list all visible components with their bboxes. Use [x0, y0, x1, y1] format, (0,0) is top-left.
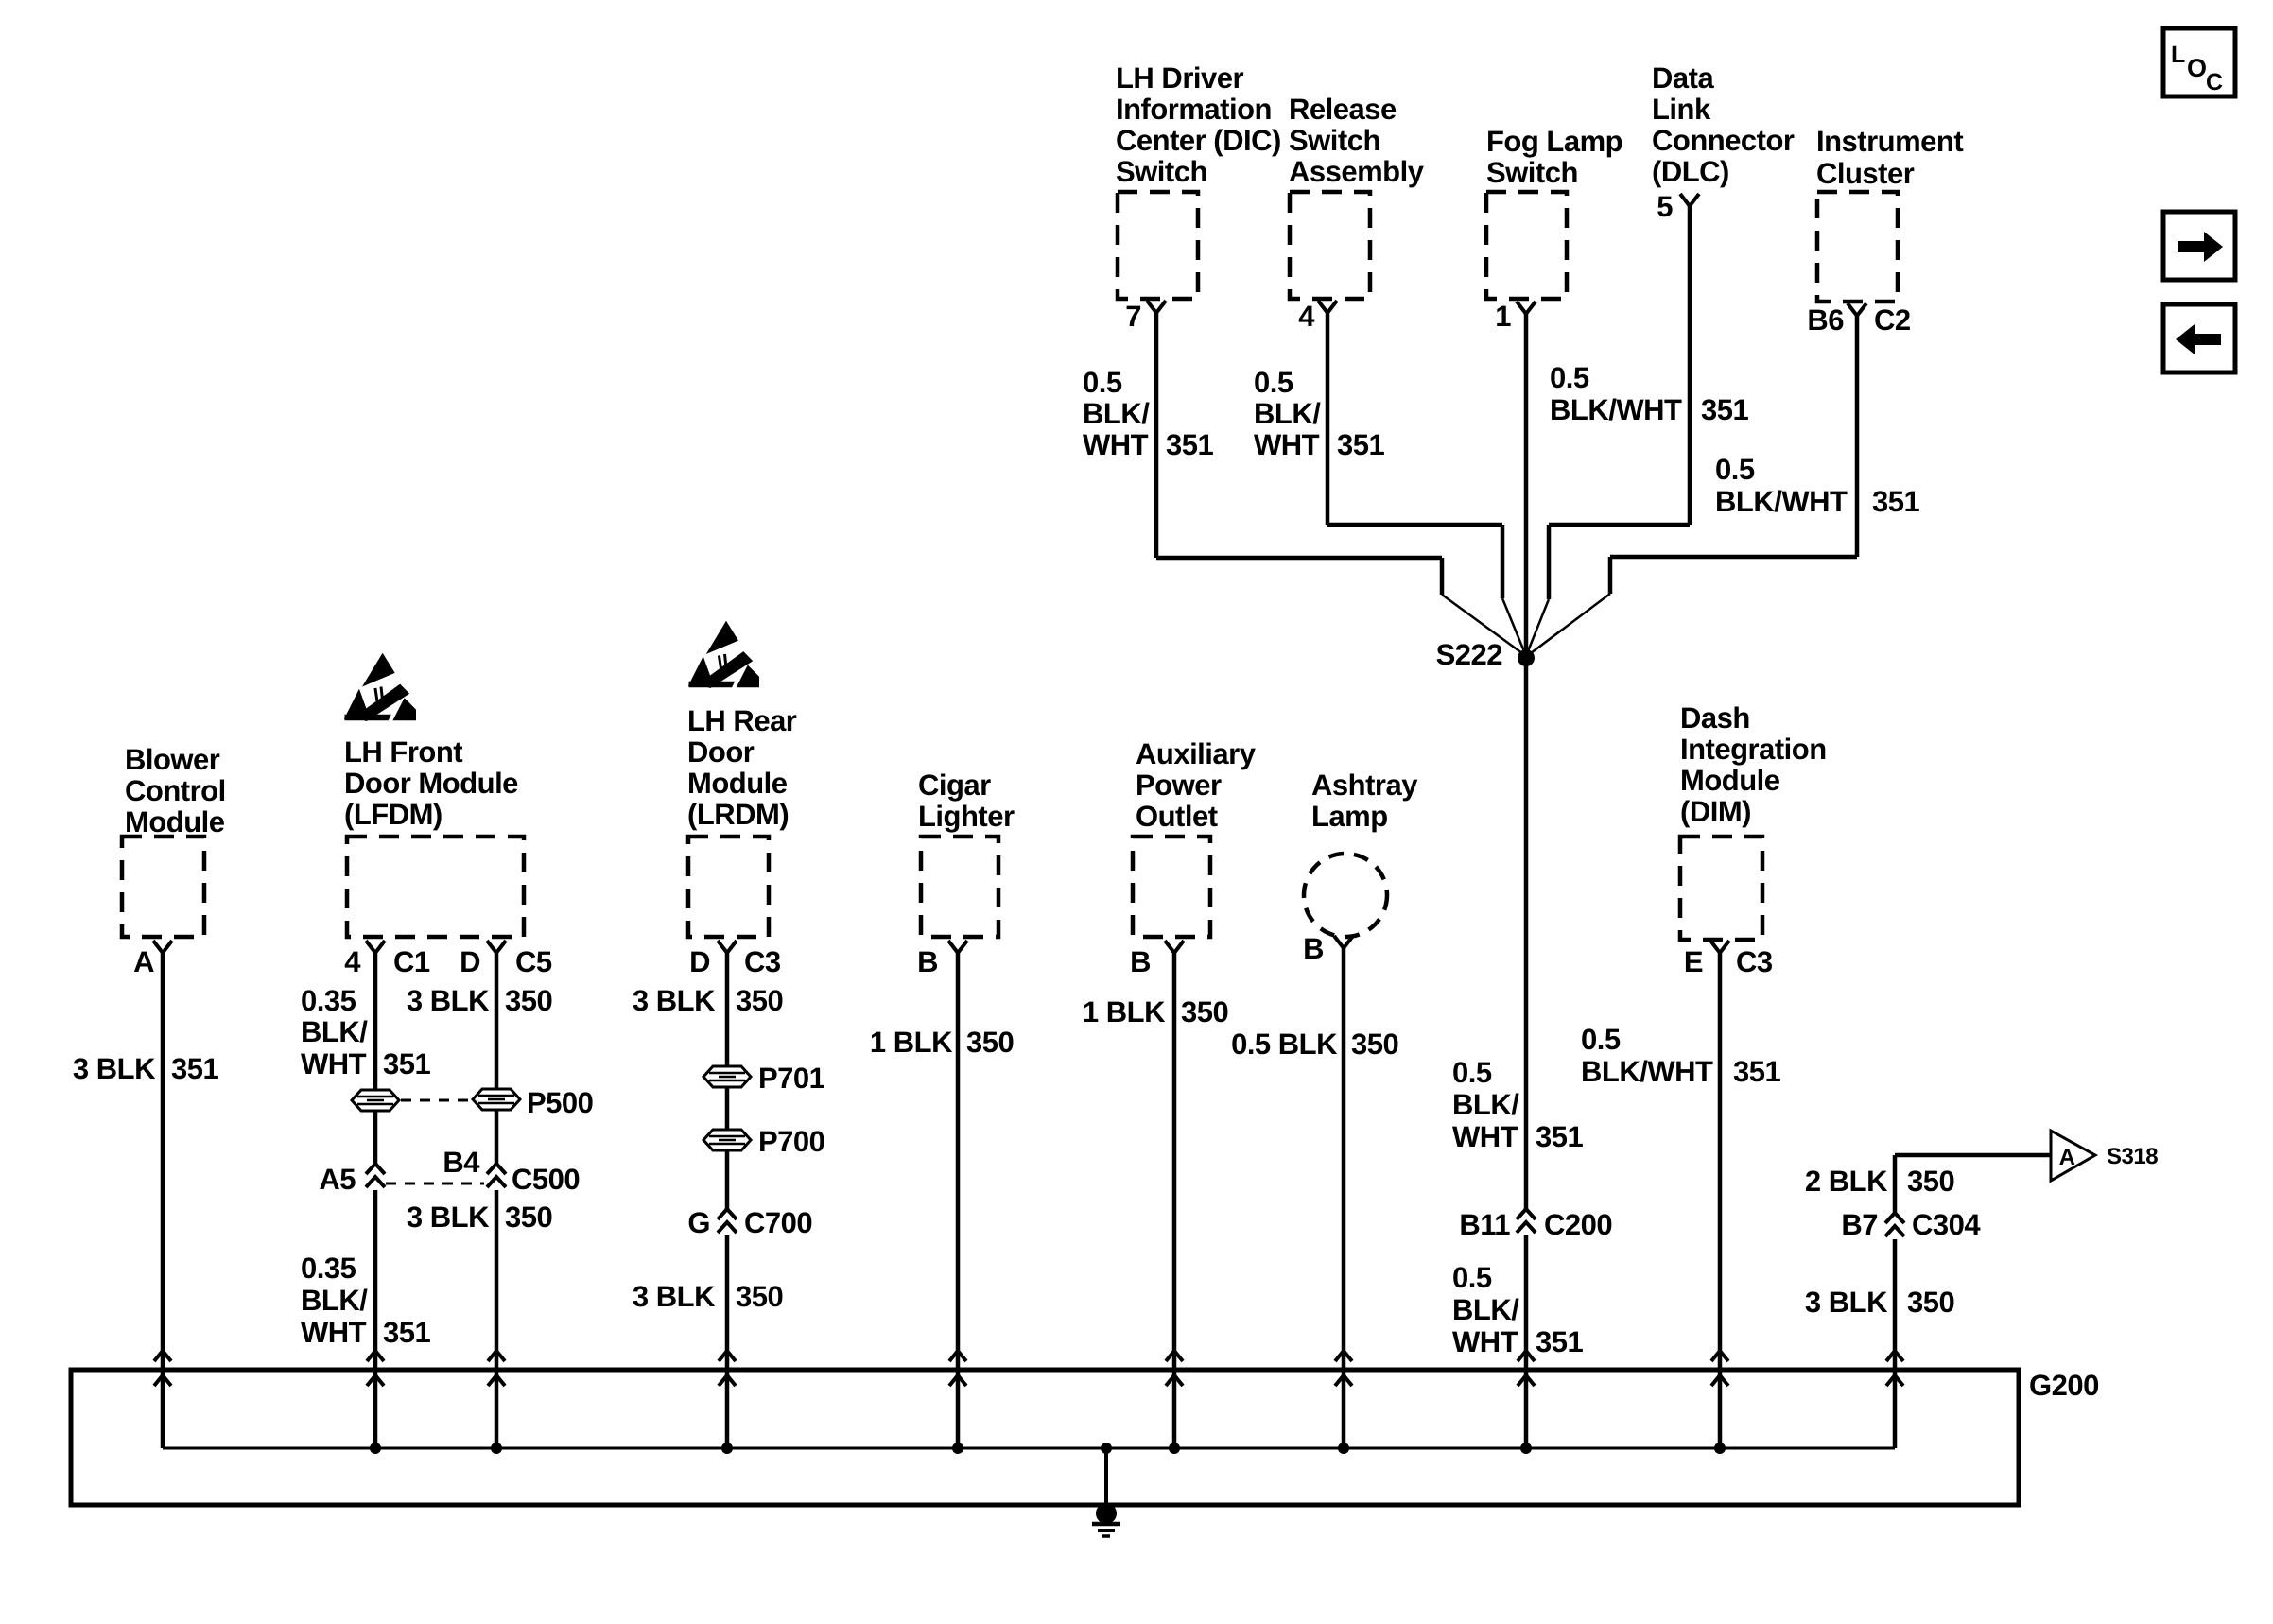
- svg-text:C700: C700: [744, 1206, 812, 1239]
- wire label 0.35 BLK/WHT 351 (lower): [301, 1252, 430, 1349]
- svg-text:Module: Module: [687, 767, 788, 800]
- svg-text:Power: Power: [1136, 769, 1222, 802]
- svg-text:350: 350: [1907, 1165, 1954, 1198]
- svg-text:Control: Control: [125, 774, 226, 807]
- svg-text:350: 350: [505, 1201, 552, 1234]
- svg-text:S318: S318: [2107, 1144, 2158, 1169]
- wire label 0.5 BLK/WHT 351 (DLC): [1550, 361, 1748, 426]
- terminal arrows into G200 at x=525: [488, 1351, 505, 1386]
- svg-text:C3: C3: [744, 945, 781, 978]
- Data Link Connector (DLC) label: [1652, 61, 1795, 188]
- Ashtray Lamp (dashed circle lamp symbol): [1304, 854, 1387, 937]
- svg-text:351: 351: [1337, 428, 1384, 461]
- svg-text:A5: A5: [319, 1163, 356, 1196]
- svg-text:Link: Link: [1652, 93, 1711, 126]
- junction on ground bus at x=397: [370, 1443, 381, 1454]
- svg-text:B11: B11: [1459, 1208, 1510, 1241]
- wire: Instrument Cluster pin B6 to splice S222, 0.5 BLK/WHT 351: [1527, 316, 1857, 656]
- svg-text:BLK/: BLK/: [1452, 1088, 1519, 1121]
- junction on ground bus at x=1614: [1520, 1443, 1532, 1454]
- svg-text:L: L: [2171, 42, 2185, 68]
- LH Driver Information Center (DIC) Switch label: [1116, 61, 1281, 188]
- Cigar Lighter label: [918, 769, 1015, 833]
- junction on ground bus at x=1421: [1338, 1443, 1349, 1454]
- wire: LFDM pin D (C5) down, 3 BLK 350: [495, 953, 499, 1448]
- svg-text:P500: P500: [527, 1086, 593, 1119]
- svg-text:A: A: [133, 945, 154, 978]
- pin 5 of DLC: [1657, 190, 1699, 223]
- pin 1 of Fog Lamp Switch: [1495, 300, 1536, 333]
- svg-text:350: 350: [1907, 1286, 1954, 1319]
- wire label 0.5 BLK/WHT 351 (below C200): [1452, 1261, 1583, 1358]
- Blower Control Module box: [122, 837, 204, 937]
- terminal arrows into G200 at x=1614: [1518, 1351, 1535, 1386]
- svg-text:Auxiliary: Auxiliary: [1136, 737, 1257, 770]
- connector pin A5 (C500): [319, 1163, 385, 1196]
- svg-text:O: O: [2187, 54, 2207, 82]
- svg-text:0.5: 0.5: [1581, 1023, 1621, 1056]
- svg-text:A: A: [2059, 1145, 2075, 1170]
- svg-text:BLK/WHT: BLK/WHT: [1550, 393, 1682, 426]
- svg-text:Lighter: Lighter: [918, 800, 1015, 833]
- svg-text:Lamp: Lamp: [1311, 800, 1388, 833]
- svg-text:3 BLK: 3 BLK: [73, 1052, 156, 1085]
- svg-text:B4: B4: [442, 1146, 480, 1179]
- svg-text:Release: Release: [1289, 93, 1397, 126]
- svg-text:C5: C5: [515, 945, 552, 978]
- svg-text:351: 351: [383, 1316, 430, 1349]
- svg-text:Switch: Switch: [1289, 124, 1380, 157]
- junction on ground bus at x=525: [491, 1443, 502, 1454]
- wire label 0.5 BLK/WHT 351 (DIM): [1581, 1023, 1780, 1088]
- svg-text:Connector: Connector: [1652, 124, 1795, 157]
- Instrument Cluster label: [1816, 125, 1963, 190]
- svg-text:C1: C1: [393, 945, 430, 978]
- svg-text:B6: B6: [1807, 303, 1844, 337]
- wire: LRDM pin D (C3) down, 3 BLK 350: [725, 953, 730, 1448]
- Dash Integration Module (DIM) label: [1680, 701, 1827, 828]
- svg-text:0.5: 0.5: [1715, 453, 1755, 486]
- svg-text:C2: C2: [1874, 303, 1911, 337]
- svg-text:Assembly: Assembly: [1289, 155, 1425, 188]
- svg-text:BLK/: BLK/: [301, 1284, 368, 1317]
- pin B of Auxiliary Power Outlet: [1130, 941, 1184, 978]
- svg-text:Integration: Integration: [1680, 733, 1827, 766]
- terminal arrows into G200 at x=172: [154, 1351, 171, 1386]
- svg-text:WHT: WHT: [1083, 428, 1149, 461]
- svg-text:0.5: 0.5: [1550, 361, 1589, 394]
- terminal arrows into G200 at x=769: [719, 1351, 736, 1386]
- wire: Blower Control Module pin A to G200, 3 BLK 351: [161, 953, 165, 1448]
- wire label 2 BLK 350: [1805, 1165, 1954, 1198]
- junction on ground bus at x=1170: [1101, 1443, 1112, 1454]
- pin D / connector C5 of LFDM: [460, 941, 552, 978]
- svg-text:0.5: 0.5: [1083, 366, 1122, 399]
- svg-text:B7: B7: [1841, 1208, 1878, 1241]
- in-line connector P700: [703, 1125, 824, 1158]
- svg-text:1 BLK: 1 BLK: [1083, 995, 1166, 1028]
- svg-text:2 BLK: 2 BLK: [1805, 1165, 1888, 1198]
- ESD sensitive icon (LFDM): [344, 653, 416, 721]
- pin A of Blower Control Module: [133, 941, 172, 978]
- svg-text:D: D: [689, 945, 710, 978]
- svg-text:WHT: WHT: [1452, 1325, 1518, 1358]
- dashed tie line A5-B4: [386, 1183, 484, 1185]
- svg-text:350: 350: [1181, 995, 1228, 1028]
- Blower Control Module label: [125, 743, 226, 838]
- Fog Lamp Switch label: [1486, 125, 1622, 189]
- pin B6 / connector C2 of Instrument Cluster: [1807, 303, 1910, 337]
- svg-text:Module: Module: [125, 805, 225, 838]
- wire: Auxiliary Power Outlet pin B to G200, 1 BLK 350: [1172, 953, 1177, 1448]
- svg-text:C: C: [2206, 69, 2223, 95]
- svg-text:0.35: 0.35: [301, 1252, 356, 1285]
- svg-text:BLK/WHT: BLK/WHT: [1581, 1055, 1713, 1088]
- Ashtray Lamp label: [1311, 769, 1418, 833]
- connector pin B7 / C304: [1841, 1208, 1981, 1241]
- svg-text:C3: C3: [1736, 945, 1773, 978]
- svg-text:Switch: Switch: [1116, 155, 1207, 188]
- in-line connector P701: [703, 1062, 825, 1095]
- svg-text:3 BLK: 3 BLK: [633, 1280, 716, 1313]
- ESD sensitive icon (LRDM): [688, 621, 759, 688]
- svg-text:BLK/: BLK/: [1254, 397, 1321, 430]
- connector pin B4 / C500: [442, 1146, 580, 1196]
- wire: DLC pin 5 to splice S222, 0.5 BLK/WHT 351: [1526, 206, 1690, 656]
- junction on ground bus at x=769: [721, 1443, 733, 1454]
- svg-text:(LFDM): (LFDM): [344, 798, 442, 831]
- wire label 3 BLK 350 (below C700): [633, 1280, 783, 1313]
- Auxiliary Power Outlet box: [1133, 837, 1210, 937]
- splice label S318: [2107, 1144, 2158, 1169]
- wire label 0.5 BLK/WHT 351 (Release): [1254, 366, 1384, 461]
- wire label 1 BLK 350 (Cigar): [870, 1026, 1014, 1059]
- svg-text:Instrument: Instrument: [1816, 125, 1963, 158]
- svg-text:B: B: [917, 945, 938, 978]
- LH Rear Door Module (LRDM) label: [687, 704, 797, 831]
- ground bus G200 name: [2029, 1369, 2099, 1402]
- wire label 3 BLK 350 (B7 branch): [1805, 1286, 1954, 1319]
- svg-text:Ashtray: Ashtray: [1311, 769, 1418, 802]
- junction on ground bus at x=1013: [952, 1443, 963, 1454]
- svg-text:D: D: [460, 945, 480, 978]
- terminal arrows into G200 at x=2004: [1886, 1351, 1903, 1386]
- Release Switch Assembly label: [1289, 93, 1425, 188]
- wire label 1 BLK 350 (Aux outlet): [1083, 995, 1228, 1028]
- svg-text:4: 4: [1298, 300, 1315, 333]
- junction on ground bus at x=1242: [1169, 1443, 1180, 1454]
- wire label 3 BLK 350 (LFDM upper): [407, 984, 552, 1017]
- forward arrow legend box: [2163, 212, 2235, 280]
- terminal arrows into G200 at x=1242: [1166, 1351, 1183, 1386]
- svg-text:Blower: Blower: [125, 743, 220, 776]
- svg-text:S222: S222: [1436, 638, 1502, 671]
- Fog Lamp Switch box: [1486, 192, 1567, 299]
- LH Front Door Module (LFDM) label: [344, 735, 518, 831]
- LOC legend box: [2163, 28, 2235, 96]
- wire: DIM pin E (C3) to G200, 0.5 BLK/WHT 351: [1718, 953, 1723, 1448]
- svg-text:B: B: [1303, 932, 1324, 965]
- ground bus wire: [163, 1447, 1895, 1450]
- svg-text:350: 350: [505, 984, 552, 1017]
- svg-text:Dash: Dash: [1680, 701, 1750, 734]
- svg-text:WHT: WHT: [1452, 1120, 1518, 1153]
- junction on ground bus at x=1819: [1714, 1443, 1726, 1454]
- svg-text:WHT: WHT: [301, 1316, 367, 1349]
- svg-text:C500: C500: [512, 1163, 580, 1196]
- wire: Cigar Lighter pin B to G200, 1 BLK 350: [956, 953, 961, 1448]
- svg-text:LH Rear: LH Rear: [687, 704, 797, 737]
- wire label 0.35 BLK/WHT 351 (upper): [301, 984, 430, 1080]
- svg-text:Switch: Switch: [1486, 156, 1578, 189]
- svg-text:0.5: 0.5: [1452, 1261, 1492, 1294]
- svg-text:Outlet: Outlet: [1136, 800, 1218, 833]
- pin E / connector C3 of DIM: [1684, 941, 1773, 978]
- svg-text:351: 351: [1536, 1325, 1583, 1358]
- wire label 0.5 BLK 350 (Ashtray): [1231, 1028, 1398, 1061]
- svg-text:Information: Information: [1116, 93, 1272, 126]
- svg-text:351: 351: [1733, 1055, 1780, 1088]
- svg-text:0.5: 0.5: [1452, 1056, 1492, 1089]
- svg-text:3 BLK: 3 BLK: [407, 1201, 490, 1234]
- wire label 0.5 BLK/WHT 351 (Instrument Cluster): [1715, 453, 1919, 518]
- svg-text:3 BLK: 3 BLK: [407, 984, 490, 1017]
- svg-text:5: 5: [1657, 190, 1673, 223]
- svg-text:WHT: WHT: [301, 1047, 367, 1080]
- svg-text:P701: P701: [758, 1062, 825, 1095]
- svg-text:0.35: 0.35: [301, 984, 356, 1017]
- svg-text:1 BLK: 1 BLK: [870, 1026, 953, 1059]
- svg-text:0.5 BLK: 0.5 BLK: [1231, 1028, 1338, 1061]
- wire: Ashtray Lamp pin B to G200, 0.5 BLK 350: [1342, 948, 1346, 1448]
- svg-text:Door Module: Door Module: [344, 767, 518, 800]
- pin D / connector C3 of LRDM: [689, 941, 781, 978]
- svg-text:Center (DIC): Center (DIC): [1116, 124, 1281, 157]
- wire: Release Switch pin 4 to splice S222, 0.5 BLK/WHT 351: [1327, 312, 1526, 656]
- Auxiliary Power Outlet label: [1136, 737, 1257, 833]
- pin B of Ashtray Lamp: [1303, 932, 1353, 965]
- svg-text:351: 351: [1701, 393, 1748, 426]
- svg-text:C304: C304: [1912, 1208, 1981, 1241]
- svg-text:E: E: [1684, 945, 1703, 978]
- dashed tie line between P500 halves: [401, 1099, 473, 1102]
- wire: splice S222 down to G200, 0.5 BLK/WHT 351: [1524, 1235, 1529, 1448]
- wire label 0.5 BLK/WHT 351 (DIC): [1083, 366, 1213, 461]
- wire: DIC switch pin 7 to splice S222, 0.5 BLK/WHT 351: [1156, 312, 1526, 656]
- LH Driver Information Center (DIC) Switch box: [1118, 192, 1198, 299]
- svg-text:351: 351: [171, 1052, 218, 1085]
- svg-text:Data: Data: [1652, 61, 1714, 95]
- pin 4 of Release Switch Assembly: [1298, 300, 1337, 333]
- svg-text:LH Front: LH Front: [344, 735, 462, 769]
- svg-text:350: 350: [736, 984, 783, 1017]
- connector pin B11 / C200: [1459, 1208, 1612, 1241]
- earth ground symbol G200: [1092, 1503, 1120, 1536]
- svg-text:(DIM): (DIM): [1680, 795, 1751, 828]
- svg-text:351: 351: [383, 1047, 430, 1080]
- svg-text:351: 351: [1536, 1120, 1583, 1153]
- svg-text:Fog Lamp: Fog Lamp: [1486, 125, 1622, 158]
- svg-text:350: 350: [736, 1280, 783, 1313]
- ground stem: [1104, 1448, 1108, 1505]
- svg-text:BLK/: BLK/: [1083, 397, 1150, 430]
- Cigar Lighter box: [921, 837, 998, 937]
- svg-text:G: G: [687, 1206, 710, 1239]
- connector pin G / C700: [687, 1206, 812, 1239]
- LFDM box: [347, 837, 524, 937]
- LRDM box: [688, 837, 769, 937]
- pin 7 of DIC switch: [1125, 300, 1166, 333]
- off-page reference triangle A to S318: [2051, 1131, 2095, 1181]
- svg-text:351: 351: [1166, 428, 1213, 461]
- svg-text:(DLC): (DLC): [1652, 155, 1729, 188]
- wire label 3 BLK 351 (Blower): [73, 1052, 219, 1085]
- svg-text:BLK/WHT: BLK/WHT: [1715, 485, 1848, 518]
- back arrow legend box: [2163, 304, 2235, 372]
- svg-text:1: 1: [1495, 300, 1511, 333]
- svg-text:LH Driver: LH Driver: [1116, 61, 1243, 95]
- svg-text:Cigar: Cigar: [918, 769, 991, 802]
- svg-text:351: 351: [1872, 485, 1919, 518]
- terminal arrows into G200 at x=397: [367, 1351, 384, 1386]
- pin B of Cigar Lighter: [917, 941, 967, 978]
- svg-text:350: 350: [966, 1026, 1014, 1059]
- connector P500 name: [527, 1086, 593, 1119]
- svg-text:WHT: WHT: [1254, 428, 1320, 461]
- wire label 3 BLK 350 (LRDM upper): [633, 984, 783, 1017]
- terminal arrows into G200 at x=1013: [949, 1351, 966, 1386]
- terminal arrows into G200 at x=1421: [1335, 1351, 1352, 1386]
- svg-text:G200: G200: [2029, 1369, 2099, 1402]
- svg-text:C200: C200: [1544, 1208, 1612, 1241]
- svg-text:(LRDM): (LRDM): [687, 798, 789, 831]
- wire: LFDM pin 4 (C1) down, 0.35 BLK/WHT 351: [373, 953, 378, 1448]
- in-line connector P500 right half: [473, 1089, 520, 1110]
- terminal arrows into G200 at x=1819: [1711, 1351, 1728, 1386]
- in-line connector P500 left half: [352, 1090, 399, 1111]
- svg-text:7: 7: [1125, 300, 1141, 333]
- Release Switch Assembly box: [1290, 192, 1370, 299]
- svg-text:Module: Module: [1680, 764, 1780, 797]
- svg-text:BLK/: BLK/: [1452, 1293, 1519, 1326]
- wire: branch to splice S318, 2 BLK 350: [1895, 1155, 2051, 1213]
- svg-text:0.5: 0.5: [1254, 366, 1293, 399]
- pin 4 / connector C1 of LFDM: [344, 941, 430, 978]
- svg-text:P700: P700: [758, 1125, 824, 1158]
- wire: C304 down to G200, 3 BLK 350: [1893, 1239, 1898, 1448]
- svg-text:3 BLK: 3 BLK: [1805, 1286, 1888, 1319]
- wire label 3 BLK 350 (below C500): [407, 1201, 552, 1234]
- ground bus G200 enclosure: [71, 1370, 2019, 1505]
- svg-text:Cluster: Cluster: [1816, 157, 1915, 190]
- DIM box: [1680, 837, 1762, 940]
- svg-text:3 BLK: 3 BLK: [633, 984, 716, 1017]
- svg-text:350: 350: [1351, 1028, 1398, 1061]
- svg-text:Door: Door: [687, 735, 755, 769]
- wire label 0.5 BLK/WHT 351 (above C200): [1452, 1056, 1583, 1153]
- svg-text:BLK/: BLK/: [301, 1015, 368, 1048]
- Instrument Cluster box: [1817, 192, 1898, 302]
- splice S222: [1436, 638, 1535, 671]
- wire: Fog Lamp Switch pin 1 down through splice: [1524, 314, 1529, 1209]
- svg-text:B: B: [1130, 945, 1151, 978]
- svg-text:4: 4: [344, 945, 361, 978]
